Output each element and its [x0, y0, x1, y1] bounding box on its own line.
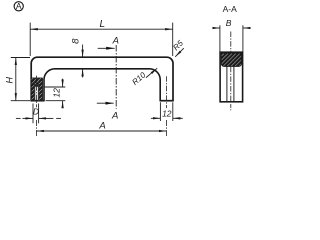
leader R5 [175, 48, 184, 57]
hatch right wall of left leg [39, 78, 43, 101]
svg-text:A-A: A-A [223, 4, 238, 14]
dimension L line [30, 28, 173, 30]
section A-A bore line left [226, 66, 228, 101]
dimension 12 left extension top [44, 86, 65, 88]
outer profile of handle [31, 57, 173, 100]
dimension 12 right arrow right [173, 117, 183, 119]
boss top line in left leg [31, 77, 42, 79]
bore wall right [37, 87, 39, 101]
dimension 12 right extension right [172, 102, 174, 121]
dimension 12 left arrow top [62, 79, 64, 87]
inner profile of handle [44, 69, 160, 101]
centerline right leg [165, 76, 167, 108]
section arrow top [98, 47, 115, 49]
dimension B arrow left [212, 27, 220, 29]
section A-A hatched bar cross-section [221, 53, 241, 66]
dimension 12 right arrow left [151, 117, 161, 119]
section A-A centerline lower [230, 104, 232, 110]
bore wall left [34, 87, 36, 101]
svg-text:L: L [100, 19, 106, 30]
dimension H extension top [11, 57, 30, 59]
dimension D arrow right [39, 117, 54, 119]
thread line left dashed [33, 87, 35, 100]
section arrow bottom [97, 102, 114, 104]
thread line right dashed [38, 87, 40, 100]
svg-text:D: D [33, 107, 39, 117]
section cutting line A-A [115, 45, 117, 109]
left leg bottom edge [30, 100, 44, 102]
centerline right leg lower part [165, 120, 167, 136]
dimension H line [15, 58, 17, 101]
dimension 8 lower arrow [82, 69, 84, 78]
dimension B extension left [219, 25, 221, 51]
dimension D dash far left [16, 117, 21, 119]
dimension 12 right extension left [159, 102, 161, 121]
section A-A outer rectangle [220, 52, 243, 102]
svg-text:8: 8 [70, 38, 81, 44]
dimension L extension left [29, 23, 31, 56]
dimension B arrow right [243, 27, 251, 29]
leader R10 [146, 68, 157, 77]
dimension H extension bottom [11, 100, 30, 102]
dimension B extension right [242, 25, 244, 51]
svg-text:A: A [112, 35, 119, 46]
dimension D extension right [38, 104, 40, 124]
section A-A bore line right [233, 66, 235, 101]
svg-text:12: 12 [162, 108, 172, 118]
dimension D arrow left [22, 117, 33, 119]
section A-A centerline upper [230, 32, 232, 53]
centerline left bore lower part [35, 120, 37, 136]
svg-text:12: 12 [51, 88, 61, 98]
dimension 12 left arrow bottom [62, 101, 64, 106]
dimension L extension right [172, 23, 174, 56]
hatch bridge above bore [34, 78, 39, 84]
view label circle A top-left [14, 1, 23, 11]
dimension A line bottom [36, 130, 166, 132]
hatch left wall of left leg [32, 78, 35, 101]
svg-text:A: A [98, 121, 105, 132]
svg-text:A: A [16, 1, 22, 11]
centerline left bore [35, 76, 37, 108]
dimension 8 upper arrow [82, 45, 84, 58]
dimension D dash far right [56, 117, 61, 119]
dimension D extension left [32, 104, 34, 124]
svg-text:H: H [4, 76, 14, 83]
break line right of hatch [42, 78, 44, 101]
bore chamfer dark mark [34, 84, 39, 87]
section A-A centerline inner [230, 67, 232, 101]
svg-text:B: B [226, 18, 232, 28]
dimension 12 left extension bottom [46, 100, 66, 102]
svg-text:A: A [111, 110, 118, 121]
right leg bottom edge [160, 100, 174, 102]
